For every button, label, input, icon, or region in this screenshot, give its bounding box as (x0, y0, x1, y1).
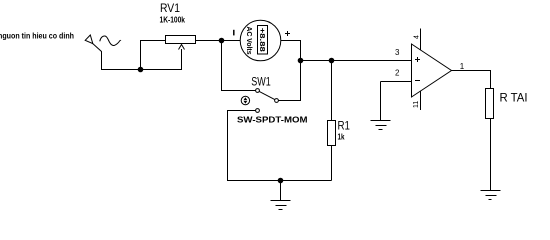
svg-text:+8.88: +8.88 (258, 28, 267, 52)
svg-text:1K-100k: 1K-100k (160, 15, 186, 24)
svg-text:2: 2 (395, 69, 400, 78)
svg-text:R1: R1 (338, 119, 351, 133)
svg-text:R TAI: R TAI (500, 91, 528, 105)
svg-text:nguon tin hieu co dinh: nguon tin hieu co dinh (0, 30, 74, 40)
svg-text:SW1: SW1 (251, 75, 271, 89)
svg-text:11: 11 (413, 101, 420, 108)
svg-text:SW-SPDT-MOM: SW-SPDT-MOM (237, 115, 308, 125)
svg-text:RV1: RV1 (160, 1, 180, 15)
svg-text:4: 4 (413, 35, 420, 39)
svg-text:AC Volts: AC Volts (245, 27, 252, 55)
svg-text:1: 1 (460, 62, 465, 71)
svg-text:3: 3 (395, 48, 400, 57)
svg-text:1k: 1k (338, 133, 345, 142)
